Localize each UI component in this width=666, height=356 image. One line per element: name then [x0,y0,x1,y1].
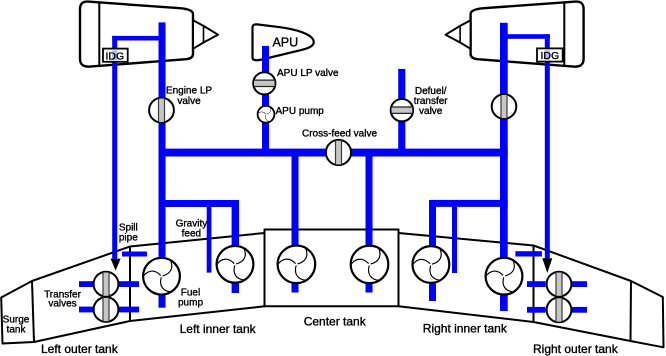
svg-text:pump: pump [178,298,203,309]
svg-text:Center tank: Center tank [304,314,367,328]
svg-text:valves: valves [48,299,76,310]
svg-text:Right outer tank: Right outer tank [533,342,619,356]
svg-text:Cross-feed valve: Cross-feed valve [302,129,377,140]
svg-text:pipe: pipe [119,233,138,244]
svg-text:IDG: IDG [541,50,560,62]
svg-text:APU LP valve: APU LP valve [277,68,339,79]
svg-text:IDG: IDG [106,50,125,62]
svg-text:Left outer tank: Left outer tank [41,342,119,356]
svg-text:feed: feed [182,229,201,240]
svg-text:tank: tank [7,325,27,336]
svg-text:Left inner tank: Left inner tank [180,322,257,336]
svg-text:valve: valve [177,96,201,107]
svg-text:valve: valve [419,106,443,117]
svg-text:APU pump: APU pump [276,106,325,117]
svg-text:APU: APU [272,36,298,50]
svg-text:Right inner tank: Right inner tank [423,322,508,336]
